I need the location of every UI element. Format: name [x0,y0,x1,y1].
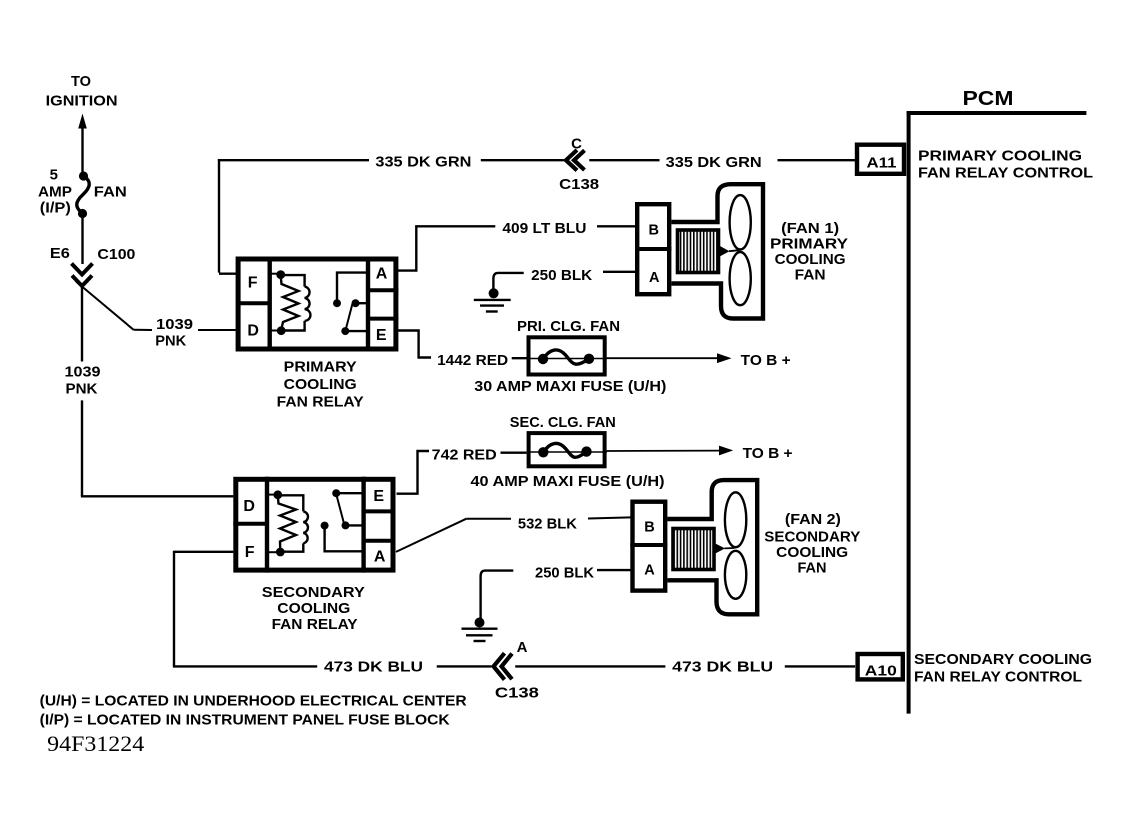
svg-text:1442 RED: 1442 RED [437,352,508,369]
wire 1039 PNK branch to relay K1 pin D [76,282,237,350]
connector C100 terminal E6 [50,245,135,286]
wire fuse to B+ with arrow (primary) [607,352,791,369]
wire 409 LT BLU from relay K1 pin A to fan1 pin B [397,220,637,271]
svg-text:742 RED: 742 RED [432,447,497,464]
wire 742 RED from relay K2 pin E [397,447,527,494]
PCM pin A10 function label [914,651,1092,686]
PCM boundary [907,87,1087,714]
node TO IGNITION label [46,73,118,110]
svg-text:FAN RELAY CONTROL: FAN RELAY CONTROL [914,669,1082,686]
svg-text:FAN RELAY: FAN RELAY [277,394,364,411]
svg-text:250 BLK: 250 BLK [531,267,592,284]
svg-text:COOLING: COOLING [775,251,846,268]
wire 335 DK GRN right segment to PCM A11 [589,154,857,171]
svg-text:FAN: FAN [798,560,827,577]
relay K2 caption [262,584,365,633]
svg-text:FAN RELAY: FAN RELAY [272,616,358,633]
svg-text:C100: C100 [97,246,135,263]
svg-text:40 AMP MAXI FUSE (U/H): 40 AMP MAXI FUSE (U/H) [471,473,665,490]
svg-text:C138: C138 [559,176,599,193]
svg-text:A: A [644,562,655,578]
relay K2 pin E label [373,488,384,505]
legend (I/P) [40,712,450,729]
svg-text:SECONDARY COOLING: SECONDARY COOLING [914,651,1092,668]
fan1 shaft [720,246,740,257]
svg-text:COOLING: COOLING [284,376,357,393]
svg-text:E: E [373,488,384,505]
fan2 shaft [716,544,735,554]
relay K2 secondary cooling fan relay: outer box [233,477,395,573]
wire fuse to C100 [81,214,83,264]
svg-text:D: D [247,322,259,339]
fuse 5 AMP FAN (I/P) [38,167,127,219]
svg-text:PRIMARY COOLING: PRIMARY COOLING [918,148,1082,165]
svg-text:PRIMARY: PRIMARY [770,235,848,252]
svg-text:PCM: PCM [963,87,1014,110]
svg-text:B: B [649,222,659,238]
svg-text:C138: C138 [495,685,539,702]
wire 473 DK BLU right segment to PCM A10 [515,659,855,676]
ground G2 [462,618,498,642]
svg-text:94F31224: 94F31224 [47,731,144,756]
relay K1 primary cooling fan relay: outer box [236,257,398,352]
svg-text:PNK: PNK [66,380,98,397]
connector C138 pin C [559,135,599,193]
relay K1 switch contacts [333,273,368,336]
svg-text:PRI. CLG. FAN: PRI. CLG. FAN [517,318,620,335]
svg-text:A: A [649,270,660,286]
svg-text:335 DK GRN: 335 DK GRN [375,154,471,171]
svg-text:AMP: AMP [38,184,72,201]
fan1 blades [730,195,751,305]
relay K1 coil [270,270,311,335]
wire 532 BLK from relay K2 pin A to fan2 pin B [396,516,631,552]
fan1 motor shroud outline [672,184,764,318]
svg-text:335 DK GRN: 335 DK GRN [666,154,762,171]
fan1 caption (FAN 1) PRIMARY COOLING FAN [770,220,848,283]
svg-text:473 DK BLU: 473 DK BLU [672,659,773,676]
svg-text:473 DK BLU: 473 DK BLU [324,659,423,676]
svg-text:FAN RELAY CONTROL: FAN RELAY CONTROL [918,165,1093,182]
svg-text:30 AMP MAXI FUSE (U/H): 30 AMP MAXI FUSE (U/H) [474,378,666,395]
relay K1 pin D label [247,322,259,339]
svg-text:FAN: FAN [94,184,127,201]
wire 1442 RED from relay K1 pin E [397,331,529,370]
svg-text:F: F [248,275,258,292]
relay K1 pin A label [376,265,388,282]
relay K1 caption [277,358,364,410]
svg-text:(FAN 1): (FAN 1) [781,220,839,237]
svg-text:FAN: FAN [795,266,826,283]
svg-text:PRIMARY: PRIMARY [284,358,357,375]
connector C138 pin A [494,639,539,702]
fan1 motor (hatched) [678,230,719,273]
svg-text:TO B +: TO B + [741,352,791,369]
fan2 connector B/A [630,502,667,591]
wire fuse to B+ with arrow (secondary) [607,445,793,462]
svg-text:SEC. CLG. FAN: SEC. CLG. FAN [510,414,616,431]
relay K2 coil [267,490,308,556]
wire 250 BLK fan1 to ground G1 [493,267,636,289]
svg-text:PNK: PNK [155,333,186,350]
svg-text:(FAN 2): (FAN 2) [785,511,841,528]
relay K2 pin D label [243,498,255,515]
svg-text:SECONDARY: SECONDARY [764,528,860,545]
PCM pin A11 function label [918,148,1093,182]
svg-text:532 BLK: 532 BLK [518,516,577,533]
svg-text:A: A [517,639,528,656]
svg-text:(U/H) = LOCATED IN UNDERHOOD E: (U/H) = LOCATED IN UNDERHOOD ELECTRICAL … [40,693,467,710]
fan2 blades [725,492,746,599]
legend (U/H) [40,693,467,710]
fan2 motor shroud outline [667,480,757,614]
svg-text:B: B [644,519,654,535]
svg-text:409 LT BLU: 409 LT BLU [502,220,586,237]
terminal A11 [857,145,904,174]
fuse SEC. CLG. FAN 40 AMP MAXI (U/H) [471,414,665,490]
svg-text:1039: 1039 [156,316,193,333]
terminal A10 [858,654,903,680]
document number 94F31224 [47,731,144,756]
svg-text:SECONDARY: SECONDARY [262,584,365,601]
svg-text:IGNITION: IGNITION [46,93,118,110]
svg-text:COOLING: COOLING [277,600,350,617]
svg-text:E6: E6 [50,245,70,262]
fuse PRI. CLG. FAN 30 AMP MAXI (U/H) [474,318,666,395]
fan2 motor (hatched) [673,529,714,570]
relay K1 pin F label [248,275,258,292]
wire 1039 PNK vertical to relay K2 pin D [65,286,234,496]
svg-text:E: E [376,327,387,344]
wire ignition feed with up arrow [78,114,87,176]
svg-text:D: D [243,498,255,515]
svg-text:F: F [245,544,255,561]
relay K2 pin F label [245,544,255,561]
svg-text:(I/P) = LOCATED IN INSTRUMENT: (I/P) = LOCATED IN INSTRUMENT PANEL FUSE… [40,712,450,729]
wire 250 BLK fan2 to ground G2 [481,565,631,619]
svg-text:COOLING: COOLING [776,544,848,561]
svg-text:A: A [374,549,386,566]
svg-text:A10: A10 [865,663,897,680]
svg-text:TO: TO [71,73,91,90]
relay K2 switch contacts [321,489,364,551]
svg-text:5: 5 [50,167,58,184]
ground G1 [474,288,511,311]
svg-text:A11: A11 [867,155,897,172]
svg-text:TO B +: TO B + [743,445,793,462]
wire 473 DK BLU left segment from relay K2 pin F [173,551,491,676]
svg-text:1039: 1039 [65,364,101,381]
wire 335 DK GRN left segment with riser to relay K1 pin F [218,154,564,274]
relay K1 pin E label [376,327,387,344]
fan1 connector B/A [635,204,672,294]
svg-text:A: A [376,265,388,282]
fan2 caption (FAN 2) SECONDARY COOLING FAN [764,511,860,576]
relay K2 pin A label [374,549,386,566]
svg-text:(I/P): (I/P) [40,200,71,217]
svg-text:250 BLK: 250 BLK [535,565,594,582]
